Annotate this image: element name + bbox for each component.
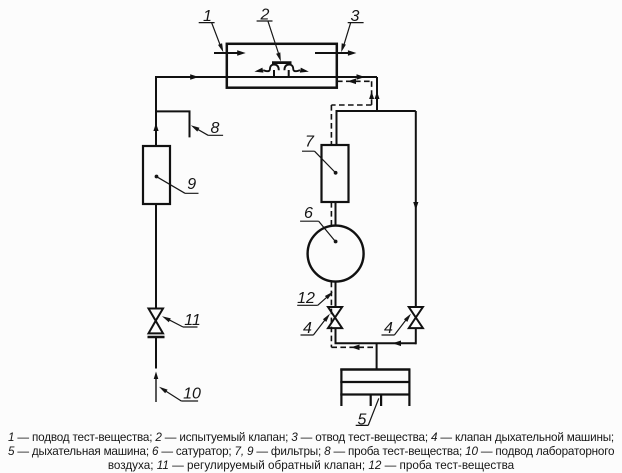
- arrow outlet 3: [348, 50, 357, 56]
- wire: left riser top: [155, 76, 157, 146]
- wire: right column: [415, 111, 417, 307]
- wire: center stub to machine: [376, 343, 378, 369]
- svg-text:4: 4: [303, 320, 312, 337]
- left arrow collector solid: [393, 341, 402, 347]
- arrowhead label 1: [218, 43, 223, 52]
- arrow inlet 1: [237, 50, 246, 56]
- filter 7: [322, 145, 349, 202]
- left arrow collector dashed: [351, 345, 360, 351]
- label 3 leader: [343, 23, 364, 49]
- breathing machine valve 4 left: [328, 307, 342, 328]
- up arrow on dashed riser: [369, 92, 374, 100]
- svg-text:1: 1: [203, 8, 212, 25]
- wire: chamber drop right: [376, 77, 378, 111]
- svg-text:12: 12: [297, 290, 315, 307]
- label 1 leader: [199, 23, 222, 49]
- up arrow on solid drop: [375, 92, 380, 100]
- svg-text:9: 9: [187, 176, 196, 193]
- wire: saturator to valve4 left: [335, 281, 337, 307]
- svg-text:4: 4: [384, 320, 393, 337]
- wire: outlet 3: [315, 52, 350, 54]
- arrowhead label 12: [325, 292, 333, 300]
- arrowhead label 3: [341, 43, 346, 52]
- wire: valve4 left to collector: [335, 328, 337, 343]
- label 7 leader: [302, 151, 335, 172]
- valve 2 stubs: [274, 70, 289, 77]
- breathing machine 5: [340, 369, 410, 407]
- inlet 10 stub with up arrow: [155, 375, 157, 402]
- left arrow dashed top: [348, 79, 357, 85]
- arrowhead label 4 left: [323, 314, 330, 322]
- arrowhead label 8: [191, 125, 200, 131]
- filter 9: [143, 146, 170, 204]
- breathing machine valve 4 right: [409, 307, 423, 328]
- wire: collector: [335, 342, 416, 344]
- caption line 2: [8, 445, 614, 459]
- labels: leader lines: [158, 21, 409, 425]
- down arrow right column: [413, 202, 418, 210]
- test chamber box: [227, 44, 337, 88]
- label leader arrowheads and dots: [155, 43, 411, 393]
- caption line 1: [8, 431, 614, 445]
- svg-text:2: 2: [260, 7, 270, 24]
- valve 2 left flow curve: [263, 65, 279, 72]
- label texts: [183, 7, 393, 429]
- svg-text:7: 7: [305, 134, 315, 151]
- wire: drop to filter7: [336, 110, 338, 145]
- check valve 11: [148, 309, 165, 338]
- flow arrows (solid triangles): [153, 50, 418, 350]
- wire: riser filter9 to valve11: [155, 204, 157, 308]
- valve under test 2: disc bar: [272, 61, 292, 64]
- dot label 9: [155, 175, 159, 179]
- up arrow left riser: [153, 123, 158, 131]
- arrowhead label 2: [276, 52, 281, 61]
- svg-text:11: 11: [184, 312, 201, 329]
- valve 2 right flow curve: [284, 65, 300, 72]
- arrow chamber to right: [357, 74, 366, 80]
- wire: right valve to collector: [415, 328, 417, 344]
- saturator 6: [308, 226, 364, 282]
- label 10 leader: [162, 388, 199, 401]
- label 12 leader: [297, 294, 330, 305]
- wire: sample branch 8: [156, 111, 190, 137]
- label 2 leader: [257, 21, 280, 57]
- wire: filter7 to saturator: [335, 202, 337, 226]
- caption line 3: [8, 459, 614, 473]
- label 8 leader: [194, 127, 223, 135]
- label 9 leader: [158, 177, 199, 193]
- svg-text:8: 8: [211, 120, 220, 137]
- svg-text:3: 3: [351, 8, 360, 25]
- svg-text:10: 10: [183, 386, 201, 403]
- label 6 leader: [300, 221, 335, 241]
- label 4 right leader: [382, 316, 409, 335]
- label 11 leader: [165, 318, 198, 327]
- arrow into chamber left: [190, 74, 199, 80]
- label 4 left leader: [301, 316, 328, 335]
- wire: below valve11: [155, 338, 157, 369]
- arrowhead label 11: [162, 316, 171, 322]
- arrowhead label 4 right: [404, 314, 411, 322]
- dot label 7: [334, 171, 338, 175]
- dot label 6: [334, 240, 338, 244]
- wire: split horizontal: [337, 110, 416, 112]
- dashed sample line 12: [331, 81, 375, 347]
- wire: left horizontal through chamber: [156, 76, 377, 78]
- arrowhead label 10: [159, 387, 168, 394]
- svg-text:5: 5: [358, 412, 367, 429]
- label 5 leader: [356, 398, 379, 425]
- wire: inlet 1: [214, 52, 240, 54]
- svg-text:6: 6: [304, 205, 313, 222]
